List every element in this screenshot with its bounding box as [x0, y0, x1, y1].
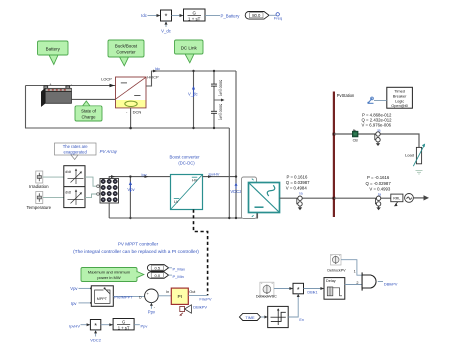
svg-text:Battery: Battery — [46, 47, 61, 52]
summing junction D1 — [139, 289, 158, 303]
svg-text:LV: LV — [174, 200, 179, 204]
voltmeter Vpv arrow and label — [127, 181, 135, 192]
svg-text:1 + sT: 1 + sT — [188, 16, 201, 21]
svg-text:2: 2 — [356, 281, 358, 285]
svg-text:PvStation: PvStation — [337, 93, 355, 98]
pin label HOCP — [147, 74, 159, 79]
wire rate limiter 2 to PV array pin — [85, 193, 99, 198]
measurement text P/Q/V at inverter output — [286, 174, 310, 190]
svg-text:DeblockVSC: DeblockVSC — [256, 295, 277, 299]
svg-text:DCN: DCN — [133, 109, 142, 114]
junction bus to breaker branch — [333, 133, 336, 136]
svg-text:RRL: RRL — [393, 197, 400, 201]
dashed control wire boost converter to FirePV — [194, 210, 208, 296]
ammeter/multimeter on inverter output — [297, 196, 302, 210]
callout DC Link — [175, 40, 204, 63]
node V_dc label — [161, 28, 172, 33]
svg-text:+: + — [50, 82, 52, 86]
svg-text:Irradiation: Irradiation — [29, 184, 49, 189]
svg-text:En: En — [299, 318, 304, 322]
node FirePV label — [199, 296, 212, 301]
svg-text:PV Array: PV Array — [100, 149, 118, 154]
svg-text:Vpv: Vpv — [70, 286, 78, 291]
value label C1 5000 [uF] — [218, 80, 223, 96]
svg-text:Converter: Converter — [116, 49, 136, 54]
bus PvStation — [333, 92, 335, 218]
wire DC negative bottom rail — [25, 127, 229, 129]
svg-text:IpvHV: IpvHV — [69, 324, 80, 329]
slider control Irradiation — [36, 171, 43, 183]
PV array PV1 — [100, 179, 119, 204]
svg-text:*: * — [94, 323, 97, 330]
label PV MPPT controller — [118, 242, 159, 247]
svg-text:V = 0.4984: V = 0.4984 — [286, 186, 308, 191]
breaker control node BRK (blue switch icon) — [367, 97, 373, 104]
callout Battery — [38, 41, 69, 65]
node DBlk1 label — [307, 290, 317, 294]
svg-text:In: In — [166, 290, 169, 294]
inverter U3 (DC-AC) — [249, 183, 280, 213]
pin DCN wire with junction — [129, 108, 132, 129]
pin label 1 — [354, 270, 356, 274]
label Irradiation — [29, 184, 49, 189]
wire TIME to comparator — [261, 316, 268, 319]
node PrefMPPT label — [114, 295, 133, 300]
svg-text:1 + sT: 1 + sT — [118, 325, 130, 330]
svg-text:DBlkPV: DBlkPV — [193, 304, 207, 309]
TIME source oval — [239, 313, 260, 320]
svg-text:CB: CB — [353, 138, 359, 142]
svg-text:V = 0.4993: V = 0.4993 — [369, 187, 391, 192]
svg-text:G: G — [122, 320, 125, 325]
svg-text:Ppv: Ppv — [148, 310, 156, 315]
node P_Min label — [169, 274, 184, 279]
svg-text:IpvHV: IpvHV — [209, 171, 220, 176]
node Vpv input label — [70, 286, 78, 291]
node Idc label (top power calc input) — [141, 13, 148, 18]
callout note The rates are exaggerated — [55, 143, 97, 160]
wire lag to Ppv label — [134, 324, 140, 326]
wire Ppv to summing junction bottom pin — [150, 303, 156, 309]
svg-text:V_dc: V_dc — [188, 91, 198, 96]
ammeter/multimeter on breaker branch — [375, 132, 380, 146]
node IpvHV label with arrow — [208, 171, 220, 178]
svg-text:VDC2: VDC2 — [230, 189, 242, 194]
wire rate limiter 1 to PV array pin — [85, 177, 99, 187]
node P_Battery label — [221, 13, 241, 18]
svg-text:Boost converter: Boost converter — [169, 155, 200, 160]
svg-text:LOCP: LOCP — [101, 76, 112, 81]
comparator block U7 — [268, 306, 289, 327]
PI controller block — [171, 288, 188, 304]
breaker CB — [352, 129, 358, 137]
svg-text:P = 0.1616: P = 0.1616 — [287, 174, 308, 179]
svg-text:VDC2: VDC2 — [90, 338, 101, 343]
pin label LOCP — [101, 76, 112, 81]
node En label — [299, 318, 304, 322]
pin label Out — [189, 290, 196, 294]
constant channel 0.5 (P_Max) — [147, 265, 168, 271]
wire battery to converter DCN-side pin (y=99.4) — [71, 98, 115, 100]
slider control Temperature — [36, 192, 43, 204]
wire DC+ right vertical (x=236) down to PV bottom rail — [235, 71, 237, 218]
svg-text:P_Min: P_Min — [173, 274, 184, 279]
node DBlkPV sink label — [193, 304, 207, 309]
wire converter HOCP to DC+ top rail — [146, 71, 236, 86]
svg-text:DBlkPV: DBlkPV — [384, 282, 398, 287]
svg-text:-: - — [71, 82, 72, 86]
node DBlkPV output label — [384, 282, 398, 287]
dial switch DeblockVSC — [260, 282, 274, 296]
wire PV array positive output to boost converter — [109, 175, 170, 178]
svg-text:5000 [uF]: 5000 [uF] — [218, 80, 223, 96]
label Temperature — [26, 205, 51, 210]
svg-text:Q = -0.02987: Q = -0.02987 — [366, 181, 392, 186]
PV array cells (circle grid) — [101, 179, 117, 202]
wire DeblockVSC to multiplier — [274, 287, 293, 290]
svg-text:FirePV: FirePV — [199, 296, 212, 301]
node IpvHV input label — [69, 324, 80, 329]
svg-text:power in MW: power in MW — [97, 275, 121, 280]
node Ia label — [299, 192, 303, 196]
svg-text:d/dt: d/dt — [65, 170, 71, 174]
svg-text:Open@t0: Open@t0 — [391, 103, 409, 108]
svg-text:5000 [uF]: 5000 [uF] — [218, 104, 223, 120]
wire VDC2 into multiplier bottom pin — [94, 330, 97, 337]
svg-text:Delay: Delay — [326, 279, 336, 283]
svg-text:Maximum and minimum: Maximum and minimum — [88, 269, 131, 274]
svg-text:Vpv: Vpv — [127, 187, 135, 192]
svg-text:D: D — [139, 296, 142, 300]
svg-text:DeblockPV: DeblockPV — [327, 268, 346, 272]
wire Irradiation to rate limiter — [43, 176, 64, 178]
svg-text:Ipv: Ipv — [71, 301, 77, 306]
wire inverter AC output to bus — [280, 197, 334, 199]
label PV Array — [100, 149, 118, 154]
pin label DCN — [126, 109, 141, 114]
voltmeter Vpv branch — [129, 175, 131, 219]
svg-text:*: * — [297, 287, 300, 294]
wire summing junction to PI — [158, 295, 171, 297]
load Z1 (variable load) — [413, 144, 425, 167]
svg-text:V = 6.976e-006: V = 6.976e-006 — [362, 122, 392, 127]
svg-text:P_Battery: P_Battery — [221, 13, 241, 18]
svg-text:(DC-DC): (DC-DC) — [178, 160, 195, 165]
junction bus to inverter wire — [333, 197, 336, 200]
wire Vdc into multiplier bottom pin — [165, 21, 168, 27]
node Ipv input label — [71, 301, 77, 306]
node Freq label — [274, 16, 282, 21]
svg-text:HV: HV — [192, 178, 198, 182]
wire MPPT output to summing junction — [113, 295, 144, 297]
svg-text:d/dt: d/dt — [65, 191, 71, 195]
label DeblockPV — [327, 268, 346, 272]
svg-text:State of: State of — [81, 108, 97, 113]
svg-text:MPPT: MPPT — [97, 297, 108, 301]
wire comparator to multiplier bottom pin — [288, 294, 300, 317]
svg-text:exaggerated: exaggerated — [64, 150, 88, 155]
node Ppv output label — [141, 324, 148, 329]
svg-text:Temperature: Temperature — [26, 205, 51, 210]
wire DC- corner vertical (x=228) down to PV bottom rail — [228, 128, 230, 218]
delay block U5 — [324, 278, 345, 300]
callout State of Charge — [75, 101, 102, 121]
wire PV array bottom pin to PV bottom rail — [108, 203, 110, 218]
wire multiplier to Delay block — [304, 287, 325, 290]
wire AND gate output — [378, 281, 383, 283]
boost converter U2 — [171, 175, 203, 210]
label DeblockVSC — [256, 295, 277, 299]
node Freq (open circle) — [276, 13, 279, 16]
svg-text:Charge: Charge — [81, 114, 96, 119]
pin label In — [166, 290, 169, 294]
svg-text:80.0: 80.0 — [252, 13, 261, 18]
svg-text:Freq: Freq — [274, 16, 282, 21]
ammeter/multimeter on grid branch — [375, 196, 380, 210]
inverter station pad — [242, 177, 257, 219]
svg-text:Out: Out — [189, 290, 196, 294]
node label above grid meter — [378, 192, 381, 196]
svg-text:P = -0.1616: P = -0.1616 — [367, 175, 390, 180]
wire Temperature to rate limiter — [43, 197, 64, 199]
svg-text:DBlk1: DBlk1 — [307, 290, 317, 294]
timed breaker logic block — [387, 87, 413, 108]
svg-text:*: * — [165, 14, 168, 21]
svg-text:Ppv: Ppv — [141, 324, 148, 329]
wire multiplier to lag block — [172, 14, 184, 17]
svg-text:PI: PI — [178, 294, 183, 300]
svg-text:Idc: Idc — [155, 66, 160, 71]
svg-text:TIME: TIME — [245, 315, 255, 320]
deblock horn icon below PI — [179, 305, 191, 316]
wire boost converter output to DC+ vertical — [203, 175, 238, 177]
svg-text:Q = 0.03987: Q = 0.03987 — [286, 180, 310, 185]
dial switch DeblockPV — [331, 255, 342, 266]
ground at RRL — [394, 202, 398, 207]
value label C2 5000 [uF] — [218, 104, 223, 120]
label Boost converter (DC-DC) — [169, 155, 200, 166]
voltmeter V_dc branch — [192, 70, 194, 129]
node Idc label on DC+ rail with arrow — [153, 66, 160, 72]
ground tap between capacitors — [214, 99, 225, 102]
wire Vpv to MPPT — [79, 287, 93, 289]
svg-text:PrefMPPT: PrefMPPT — [114, 295, 133, 300]
wire PI output FirePV — [188, 294, 207, 296]
node P_Max label — [169, 266, 185, 271]
multiplier block M3 (deblock logic) — [293, 283, 304, 294]
buck/boost converter U1 — [116, 77, 147, 108]
wire bus to grid source — [334, 197, 391, 199]
wire grid source to infinite bus arrow — [413, 195, 429, 200]
multiplier block M2 (IpvHV*VDC2) — [90, 320, 100, 330]
svg-text:Load: Load — [405, 152, 414, 157]
source impedance RRL — [391, 194, 403, 202]
label Load — [405, 152, 414, 157]
node Ppv label below summing junction — [148, 310, 156, 315]
voltmeter VDC2 arrow and label — [230, 183, 242, 195]
measurement text P/Q/V at breaker branch — [362, 113, 393, 128]
svg-text:PV MPPT controller: PV MPPT controller — [118, 242, 159, 247]
capacitor C2 5000uF — [211, 111, 217, 113]
wire Delay to AND gate input 2 — [345, 284, 362, 286]
node label above breaker meter — [378, 128, 381, 132]
wire bus to load branch — [334, 134, 419, 147]
label CB — [353, 138, 359, 142]
svg-text:0.0: 0.0 — [155, 273, 161, 278]
capacitor branch vertical wire — [213, 70, 215, 129]
bus label PvStation — [337, 93, 355, 98]
capacitor C1 5000uF — [211, 84, 217, 86]
grid source G1 — [405, 194, 414, 203]
rate limiter block RL1/RL2 — [64, 166, 85, 208]
pin label 2 — [356, 281, 358, 285]
multiplier block M1 (Idc*Vdc) — [161, 10, 172, 21]
svg-text:HOCP: HOCP — [147, 74, 159, 79]
svg-text:V_dc: V_dc — [161, 28, 172, 33]
wire IpvHV to multiplier — [81, 323, 91, 326]
svg-text:G: G — [192, 10, 196, 15]
callout Buck/Boost Converter — [108, 40, 144, 66]
transfer function block G/(1+sT) (battery power filter) — [184, 9, 206, 21]
constant channel 0.0 (P_Min) — [147, 272, 168, 278]
callout Maximum and minimum power in MW — [81, 268, 144, 282]
transfer function block G/(1+sT) (PV power filter) — [113, 319, 134, 331]
node Ipv label with arrow — [141, 172, 148, 178]
svg-text:DC Link: DC Link — [181, 46, 198, 51]
label integral controller note — [73, 249, 199, 255]
wire multiplier to lag block — [101, 323, 113, 326]
wire lag block to P_Battery label — [205, 15, 220, 17]
wire Idc to multiplier — [148, 14, 161, 17]
svg-text:(The integral controller can b: (The integral controller can be replaced… — [73, 249, 199, 255]
wire PV bottom rail to inverter — [109, 213, 257, 220]
svg-text:Idc: Idc — [141, 13, 148, 18]
AND gate U6 — [362, 272, 376, 290]
wire meter to Freq node — [269, 14, 276, 16]
svg-text:The rates are: The rates are — [63, 144, 89, 149]
output channel meter 80.0 (frequency display) — [245, 12, 269, 20]
MPPT block U4 — [91, 286, 113, 307]
battery B1 — [41, 82, 72, 106]
voltmeter V_dc arrow and label — [188, 86, 198, 97]
svg-text:1: 1 — [354, 270, 356, 274]
ground below load (faint) — [416, 171, 423, 175]
svg-text:P_Max: P_Max — [173, 266, 185, 271]
wire battery negative left vertical — [25, 86, 27, 129]
svg-text:Buck/Boost: Buck/Boost — [115, 43, 138, 48]
wire breaker control to timed breaker logic — [374, 100, 387, 102]
node VDC2 label — [90, 338, 101, 343]
measurement text P/Q/V at grid branch — [366, 175, 392, 192]
wire DeblockPV to AND gate input 1 — [341, 260, 362, 276]
wire Ipv to MPPT — [79, 302, 93, 304]
svg-text:0.5: 0.5 — [155, 266, 161, 271]
wire battery top rail (y=85.5) to converter LOCP pin — [26, 84, 116, 88]
